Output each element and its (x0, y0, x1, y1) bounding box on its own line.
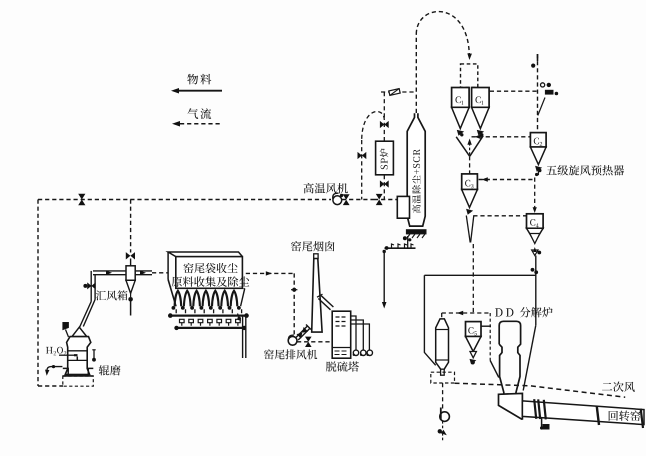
label 窑尾烟囱 (291, 241, 334, 251)
mixing funnel below C1 pair (456, 137, 469, 156)
wire SP boiler outlet down (383, 175, 385, 200)
label 高温除尘+SCR (vertical) (412, 149, 421, 213)
label C5 (468, 327, 476, 335)
cyclone C1 right box (472, 88, 490, 108)
valve above SP boiler (383, 120, 385, 141)
tick at downcomer top (537, 54, 539, 61)
legend solid arrow (material flow) (178, 90, 222, 92)
valve after fan (342, 199, 374, 201)
wire baghouse clean gas to exhaust fan (246, 272, 294, 274)
wire raw meal feed down-left (424, 275, 435, 365)
wire main gas duct top horizontal (38, 199, 331, 201)
wire down to exhaust fan (293, 273, 295, 334)
wire C2 discharge down (537, 171, 539, 178)
label DD分解炉 (495, 308, 513, 316)
legend label 气流 (gas flow) (187, 108, 211, 119)
label 回转窑 (609, 410, 641, 420)
label C4 (530, 219, 539, 227)
wire dashed arc SP boiler bypass (362, 111, 385, 140)
duct cyclone to baghouse (135, 270, 152, 272)
valve and arrow at bin discharge (438, 429, 442, 433)
label 窑尾排风机 (264, 349, 317, 359)
SCR vessel 高温除尘+SCR body (407, 113, 425, 226)
drag-chain conveyor under SCR (385, 247, 416, 249)
mill right sensor (93, 350, 95, 358)
feed bin (capsule vessel) (436, 319, 449, 369)
rotary kiln 回转窑 shell (522, 401, 644, 425)
valve on top gas duct (78, 194, 85, 206)
label 高温风机 (304, 183, 348, 194)
valve below SCR base (403, 236, 407, 240)
bin foundation (dashed box) (431, 372, 455, 383)
chimney 窑尾烟囱 (312, 258, 322, 332)
wire bin discharge down (442, 383, 444, 409)
cyclone C5 box (466, 322, 482, 337)
bin discharge nozzle (441, 369, 445, 375)
valve on fan outlet (297, 327, 309, 339)
kiln feed line to kiln hood (523, 325, 536, 390)
cyclone C4 box (527, 214, 544, 229)
label C2 (534, 138, 542, 146)
label 窑尾袋收尘 (184, 263, 238, 273)
wire branch down to recirculation cyclone (130, 200, 132, 253)
wire fan to SCR inlet with damper (374, 199, 397, 201)
wire C2 to C1 funnel (472, 136, 531, 138)
label C3 (465, 180, 473, 188)
label 原料收集及除尘 (172, 276, 250, 286)
wire riser from SCR top (415, 34, 417, 113)
wire fan to scrubber (297, 341, 332, 343)
C3 dip-leg funnel (466, 216, 470, 243)
airslide hooks row (180, 319, 241, 325)
cyclone C3 cone (462, 190, 478, 208)
kiln end ring (641, 409, 643, 428)
kiln drive (541, 418, 543, 427)
rotary feeder below bin (440, 412, 450, 422)
flap valve under C1 right (478, 131, 484, 135)
C1 riser connecting duct (dashed box) (461, 64, 478, 88)
duct mill riser to cyclone (double line) (93, 270, 126, 272)
wire C2 to C3 inlet (479, 179, 535, 181)
wire C5 outlet to calciner (481, 325, 491, 327)
baghouse hopper lancets (175, 291, 238, 307)
label C1 right (475, 96, 483, 104)
scrubber 脱硫塔 vessel (332, 311, 351, 358)
baghouse outlet duct down (double line) (242, 316, 244, 358)
hopper discharge dots (172, 306, 176, 310)
cyclone C4 cone (527, 228, 544, 242)
wire gas duct arc to twin C1 cyclones (416, 12, 469, 55)
cyclone discharge dot and tail (128, 297, 133, 302)
wire calciner outlet to bin horizontal (442, 312, 491, 314)
baghouse top face (3D) (168, 252, 242, 257)
label SP炉 (vertical) (380, 149, 389, 170)
legend label 物料 (material) (187, 74, 211, 85)
H2O2 injection line (59, 354, 74, 356)
calciner enclosure left (dashed) (489, 313, 491, 361)
flap valve under C2 (536, 167, 541, 171)
cyclone C1 right cone (472, 107, 490, 128)
label H2O2 (46, 347, 56, 355)
label 汇风箱 (96, 290, 128, 300)
mill feed chute glyph (63, 323, 69, 330)
wire C3 discharge down to calciner level (472, 244, 474, 313)
legend dashed arrow (gas flow) (180, 123, 222, 125)
gas arrow up inside funnel (469, 143, 471, 155)
mill base (63, 368, 94, 376)
wire funnel apex down to C3 (469, 156, 471, 174)
SCR vessel base bar (406, 230, 426, 234)
valve on SP bypass (358, 152, 367, 159)
kiln riding ring 1 (534, 399, 536, 419)
flap valve under C1 left (458, 131, 464, 135)
wire C4 discharge down (535, 256, 537, 326)
cyclone C3 box (462, 174, 478, 190)
kiln riding ring 2 (538, 399, 540, 419)
dust discharge line with arrow (383, 250, 386, 253)
screw conveyor lower (176, 327, 244, 329)
calciner DD分解炉 vessel (499, 321, 520, 394)
duct elbow down to mill (90, 271, 92, 302)
kiln hood (499, 393, 523, 419)
cyclone C5 tip cone (470, 352, 476, 358)
duct scrubber to chimney (318, 299, 330, 310)
kiln riding ring 3 (597, 406, 599, 425)
wire main gas duct left vertical (37, 200, 39, 387)
baghouse hopper trapezoid (167, 252, 169, 280)
label 辊磨 (99, 365, 121, 375)
cyclone C1 left cone (452, 107, 470, 128)
exhaust fan 窑尾排风机 (288, 336, 297, 345)
cyclone C4 inner cone (530, 234, 540, 244)
wire main gas duct bottom to mill foundation (38, 385, 63, 387)
wire C3 to C4 inlet (473, 215, 526, 217)
recirculation cyclone box (126, 266, 135, 281)
cyclone C5 cone (466, 337, 482, 352)
kiln riding ring 2b (544, 400, 546, 420)
valve above recirculation cyclone (126, 252, 135, 259)
flap valve under C4 (532, 250, 538, 256)
recirculation pumps (353, 350, 358, 355)
scrubber internals (336, 317, 346, 326)
SP boiler SP炉 box (376, 141, 394, 175)
flap valve under C5 (471, 360, 475, 364)
fan outlet duct diagonal (296, 326, 307, 337)
label 脱硫塔 (326, 361, 359, 371)
cyclone C2 box (530, 133, 546, 147)
cyclone C2 cone (530, 147, 546, 165)
sensor dot on exhaust line (292, 288, 296, 292)
double-flap valve assembly (541, 83, 545, 87)
label C1 left (455, 96, 463, 104)
valve below SP boiler (380, 180, 389, 187)
mill reject pipe with arrow (47, 367, 63, 371)
wire branch to SP boiler with louver damper (381, 91, 416, 93)
fan 高温风机 symbol (333, 196, 342, 205)
flap valve under C3 (467, 210, 472, 214)
wire C1 right to downcomer (490, 90, 538, 92)
secondary air duct 二次风 (455, 383, 626, 397)
SCR base hatching (407, 234, 425, 238)
hopper discharge ticks (176, 309, 241, 313)
mill foundation dashed box (63, 376, 94, 386)
wire tertiary air downcomer (537, 54, 539, 133)
recirculation cyclone cone (126, 280, 135, 293)
screw conveyor upper (170, 314, 247, 316)
roller mill body (72, 327, 87, 336)
valve on mill riser (87, 282, 95, 289)
pulley glyph on outlet duct (237, 317, 241, 321)
label 二次风 (602, 382, 635, 392)
SCR inlet plenum box (397, 196, 409, 218)
baghouse casing front face (176, 257, 243, 289)
wire raw meal feed horizontal (424, 274, 535, 276)
wire pneumatic line to bin top (441, 313, 443, 319)
label 五级旋风预热器 (546, 165, 624, 175)
cyclone C1 left box (452, 88, 470, 108)
scrubber recirculation pipes (351, 316, 370, 350)
wire SP bypass left vertical (361, 140, 363, 200)
